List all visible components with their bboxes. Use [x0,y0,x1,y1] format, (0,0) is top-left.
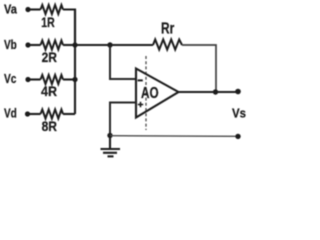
wire 1R to bus [63,10,75,46]
junction dot ground [107,133,112,138]
terminal dot Vb [25,42,30,47]
svg-text:4R: 4R [41,84,57,99]
wire 8R to bus [63,113,75,115]
junction dot bus/Vb [72,42,77,47]
output wire [179,91,239,93]
wire 4R to bus [63,78,75,80]
wire 2R to bus [63,44,75,46]
ground rail wire [110,135,238,138]
junction node dot [107,42,112,47]
svg-text:1R: 1R [41,15,54,30]
svg-text:AO: AO [141,85,159,102]
svg-text:Vd: Vd [4,105,17,120]
junction dot output/feedback [213,89,218,94]
wire summing node to inverting branch [75,44,110,46]
terminal dot Vd [25,111,30,116]
wire Va to resistor 1R [28,8,41,10]
wire Vd to resistor 8R [28,113,41,115]
wire Vc to resistor 4R [28,78,41,80]
feedback wire to output [182,45,216,92]
terminal dot Vc [25,77,30,82]
resistor 1R zigzag [41,5,64,14]
resistor 2R zigzag [41,41,64,50]
wire non-inverting input to ground rail [110,103,136,136]
svg-text:Rr: Rr [161,21,174,38]
wire Vb to resistor 2R [28,44,41,46]
bus wire (summing node vertical) [74,10,76,115]
terminal dot Va [25,7,30,12]
resistor 4R zigzag [41,75,64,84]
svg-text:Va: Va [4,2,17,17]
resistor 8R zigzag [41,110,64,119]
svg-text:Vb: Vb [4,37,17,52]
resistor Rr zigzag [153,40,182,50]
dashed origin line through op-amp [145,56,147,130]
op-amp U1 triangle [136,69,179,118]
svg-text:2R: 2R [42,50,57,65]
minus input symbol [138,79,143,81]
junction dot bus/Vc [72,77,77,82]
svg-text:Vc: Vc [4,71,16,86]
wire node to feedback resistor [110,44,153,46]
svg-text:8R: 8R [42,119,57,134]
wire to inverting input [110,45,136,79]
plus input symbol [138,104,143,106]
terminal dot bottom right [235,134,240,139]
svg-text:Vs: Vs [232,106,246,121]
ground symbol [109,136,111,149]
terminal dot Vs [235,89,241,95]
